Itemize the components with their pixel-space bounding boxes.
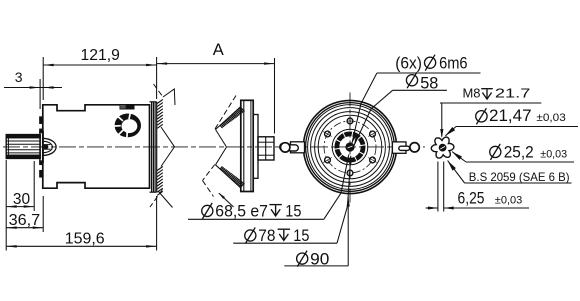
svg-text:M8: M8 bbox=[463, 85, 481, 100]
svg-text:3: 3 bbox=[15, 69, 23, 85]
svg-text:30: 30 bbox=[13, 191, 30, 208]
svg-text:21,47: 21,47 bbox=[489, 106, 532, 125]
svg-text:B.S 2059 (SAE 6 B): B.S 2059 (SAE 6 B) bbox=[469, 170, 570, 184]
svg-text:±0,03: ±0,03 bbox=[536, 112, 565, 124]
svg-text:36,7: 36,7 bbox=[9, 212, 41, 229]
svg-text:A: A bbox=[213, 41, 224, 59]
svg-text:±0,03: ±0,03 bbox=[495, 194, 523, 206]
svg-text:159,6: 159,6 bbox=[65, 231, 105, 248]
svg-text:25,2: 25,2 bbox=[504, 142, 534, 161]
svg-text:21.7: 21.7 bbox=[495, 85, 531, 100]
svg-text:78: 78 bbox=[258, 227, 275, 245]
svg-text:±0,03: ±0,03 bbox=[540, 149, 567, 161]
svg-text:121,9: 121,9 bbox=[81, 47, 120, 64]
svg-text:68,5 e7: 68,5 e7 bbox=[215, 203, 268, 221]
svg-text:15: 15 bbox=[293, 227, 309, 245]
svg-text:(6x): (6x) bbox=[395, 55, 422, 73]
svg-text:15: 15 bbox=[285, 203, 301, 221]
svg-text:6,25: 6,25 bbox=[458, 188, 485, 207]
svg-text:90: 90 bbox=[310, 250, 329, 268]
svg-text:58: 58 bbox=[420, 74, 438, 92]
svg-text:6m6: 6m6 bbox=[439, 55, 468, 73]
